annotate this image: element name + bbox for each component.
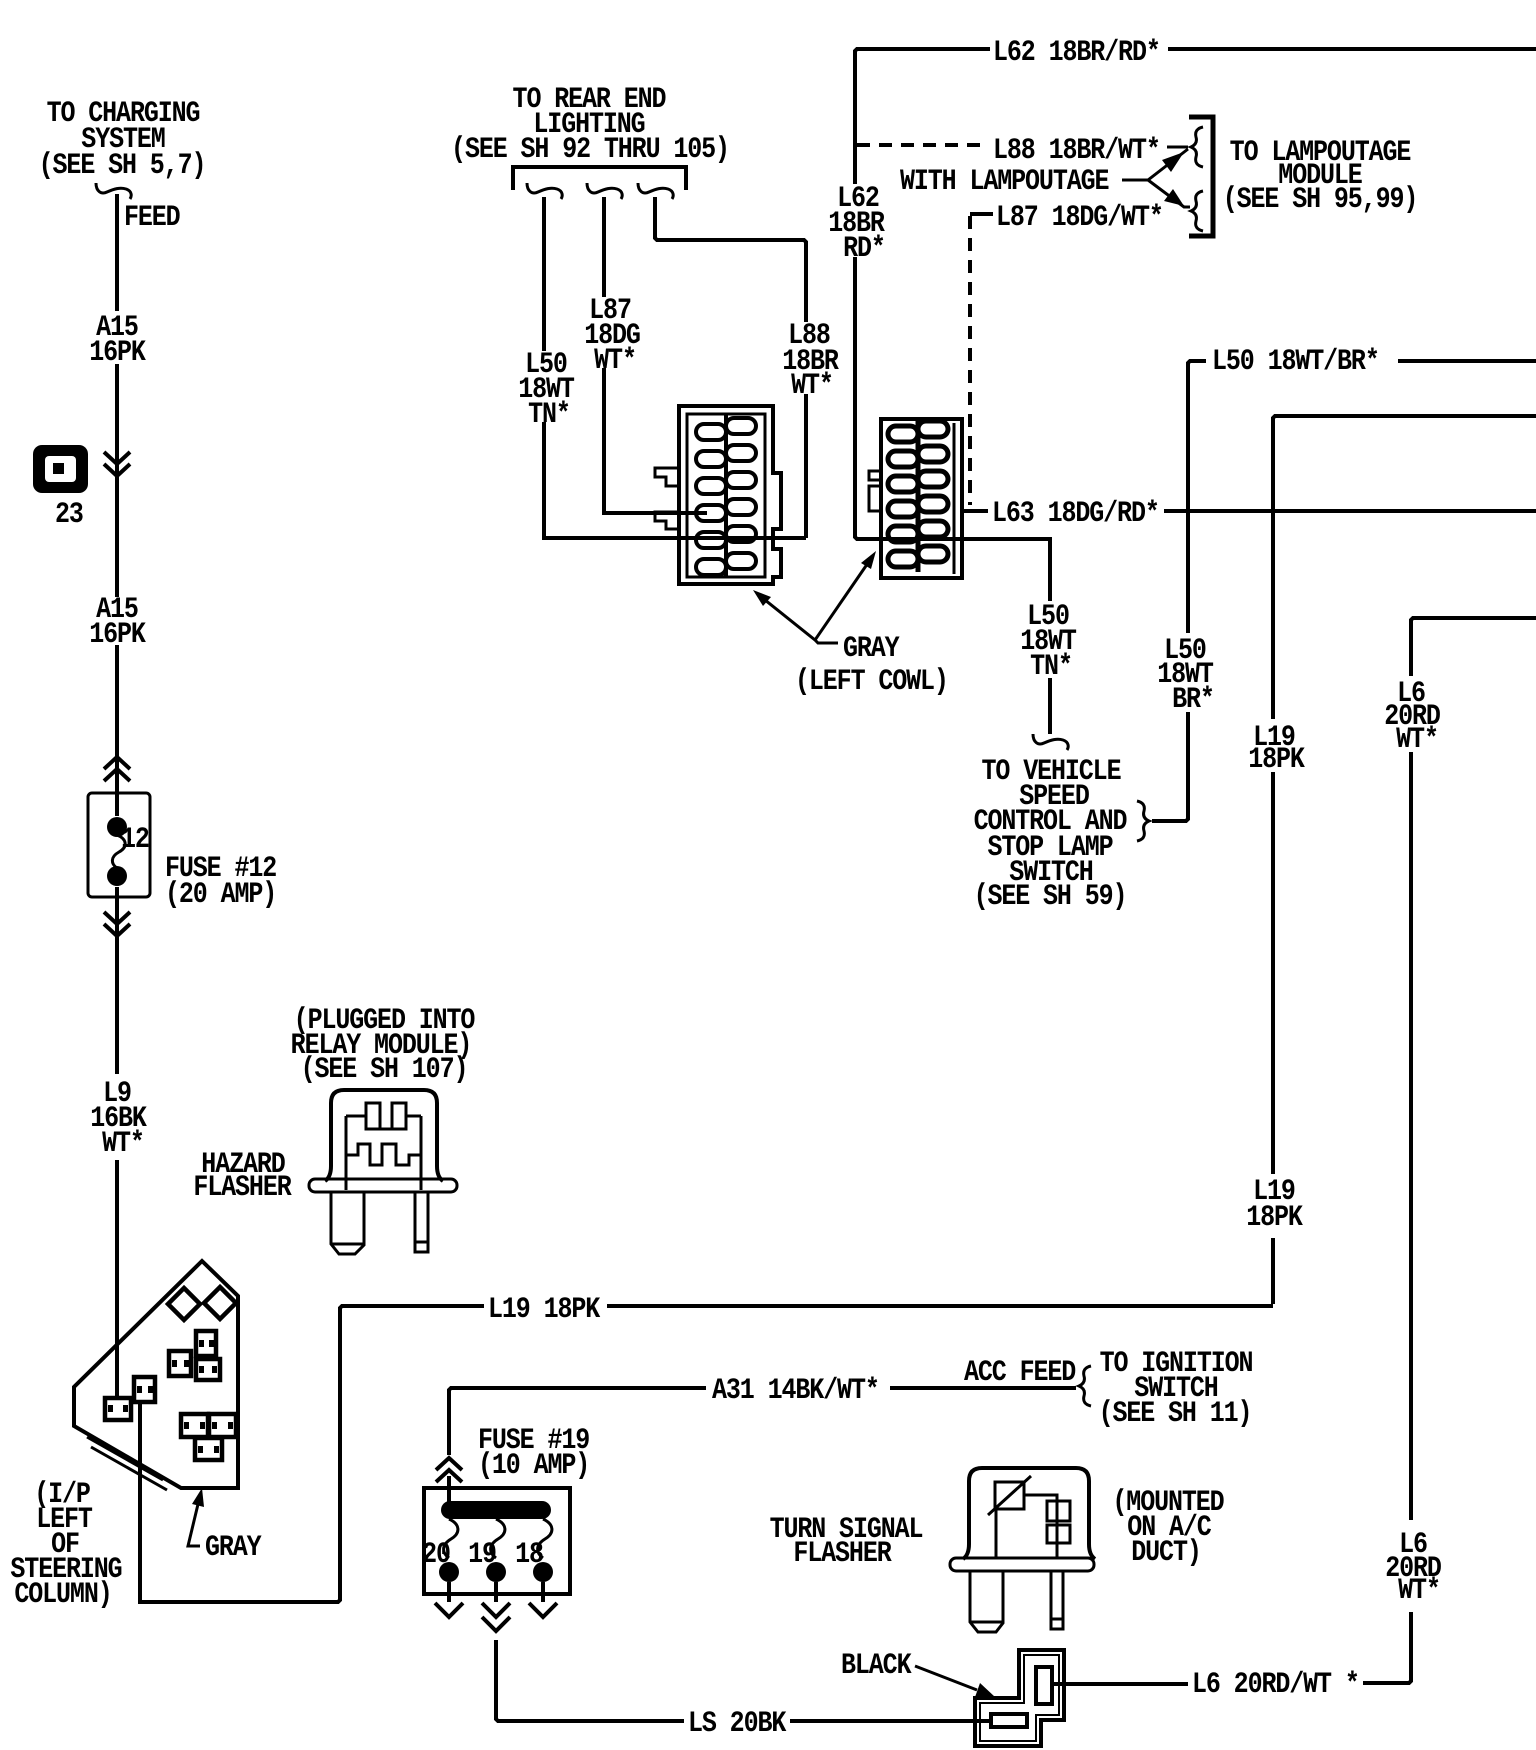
label FUSE #12 (20 AMP) xyxy=(165,852,276,911)
svg-text:COLUMN): COLUMN) xyxy=(14,1578,111,1611)
svg-text:WT*: WT* xyxy=(1396,723,1438,756)
label TO CHARGING SYSTEM (SEE SH 5,7) xyxy=(39,97,206,183)
svg-text:(LEFT COWL): (LEFT COWL) xyxy=(795,665,948,698)
inline connector chevrons (down) below fuse 12 xyxy=(104,912,130,936)
connector C2 gray left cowl (right block) outline xyxy=(869,419,962,578)
label wire L62 18BR RD* (vertical) xyxy=(828,182,885,265)
wire L6 20RD/WT* into black connector xyxy=(1052,1682,1188,1686)
wire L50 18WT/BR* right side xyxy=(1152,361,1536,821)
fuse F12 (FUSE #12 20 AMP) xyxy=(88,793,150,897)
svg-text:L19 18PK: L19 18PK xyxy=(488,1293,601,1326)
svg-text:FLASHER: FLASHER xyxy=(193,1171,292,1204)
wire L62 18BR/RD* top horizontal and down the page xyxy=(855,49,1536,734)
svg-text:(20 AMP): (20 AMP) xyxy=(165,878,276,911)
svg-text:GRAY: GRAY xyxy=(205,1531,262,1564)
label wire L6 20RD WT* (upper) xyxy=(1384,677,1440,756)
wire stub L88 18BR/WT* to lampoutage brace xyxy=(1167,146,1188,149)
steering connector terminal squares xyxy=(105,1331,236,1460)
wire L19 18PK right vertical xyxy=(1273,416,1536,1304)
wire L19 18PK horizontal run to steering column connector xyxy=(140,1306,1273,1602)
svg-text:(10 AMP): (10 AMP) xyxy=(478,1449,589,1482)
arrow fork WITH LAMPOUTAGE upper xyxy=(1122,149,1188,180)
label (MOUNTED ON A/C DUCT) xyxy=(1112,1486,1224,1569)
svg-text:RD*: RD* xyxy=(843,232,885,265)
svg-text:ACC FEED: ACC FEED xyxy=(964,1356,1076,1389)
label TURN SIGNAL FLASHER xyxy=(770,1513,923,1570)
label wire A15 16PK (upper) xyxy=(89,311,146,369)
wire L88 18BR WT* from rear lighting down right xyxy=(655,197,806,538)
svg-text:WT*: WT* xyxy=(1398,1574,1440,1607)
svg-text:L6 20RD/WT *: L6 20RD/WT * xyxy=(1192,1668,1359,1701)
svg-text:(SEE SH 59): (SEE SH 59) xyxy=(974,880,1127,913)
connector C1 gray left cowl (left block) outline xyxy=(655,406,781,584)
arrow GRAY (LEFT COWL) to connector C1 xyxy=(753,590,838,643)
svg-text:WT*: WT* xyxy=(102,1127,144,1160)
label TO LAMPOUTAGE MODULE (SEE SH 95,99) xyxy=(1223,136,1418,216)
arrow GRAY to steering column connector xyxy=(188,1488,204,1546)
label (I/P LEFT OF STEERING COLUMN) xyxy=(10,1478,122,1611)
brace terminal upper (to lampoutage module) xyxy=(1191,127,1203,167)
wire L6 20RD WT* right vertical xyxy=(1363,618,1536,1683)
dashed wire L88 18BR/WT* branch xyxy=(857,143,988,147)
in-line connector 23 symbol xyxy=(33,445,88,493)
svg-text:FLASHER: FLASHER xyxy=(793,1537,892,1570)
label wire A15 16PK (lower) xyxy=(89,593,146,651)
svg-text:(SEE SH 5,7): (SEE SH 5,7) xyxy=(39,149,206,182)
label wire L50 18WT BR* xyxy=(1157,634,1214,716)
label TO REAR END LIGHTING (SEE SH 92 THRU 105) xyxy=(451,83,729,166)
svg-text:L88 18BR/WT*: L88 18BR/WT* xyxy=(993,134,1160,167)
label wire L50 18WT TN* (right) xyxy=(1020,600,1076,683)
svg-text:LS 20BK: LS 20BK xyxy=(688,1707,787,1740)
wire L87 18DG WT* from rear lighting into left cowl connector xyxy=(604,197,707,513)
steering connector terminal diamonds xyxy=(168,1287,236,1320)
svg-text:WT*: WT* xyxy=(594,344,636,377)
black connector at turn signal flasher xyxy=(975,1650,1064,1746)
label wire L87 18DG WT* xyxy=(584,294,640,377)
wire LS 20BK from fuse 19 pin 19 to black connector xyxy=(496,1640,992,1721)
inline connector chevrons (up) above fuse 19 xyxy=(436,1458,462,1482)
fuse F19 block (FUSE #19 10 AMP) xyxy=(424,1488,570,1594)
connector C1 terminal meander xyxy=(696,415,756,576)
steering connector terminal corner nubs xyxy=(108,1340,233,1453)
svg-text:(SEE SH 95,99): (SEE SH 95,99) xyxy=(1223,183,1418,216)
svg-text:(SEE SH 92 THRU 105): (SEE SH 92 THRU 105) xyxy=(451,133,729,166)
terminal squiggle rear lighting 2 xyxy=(587,183,622,199)
arrow GRAY (LEFT COWL) to connector C2 xyxy=(815,551,876,640)
terminal squiggle rear lighting 3 xyxy=(638,183,673,199)
dashed wire L87 18DG/WT* branch xyxy=(970,214,993,505)
svg-text:WITH LAMPOUTAGE: WITH LAMPOUTAGE xyxy=(900,165,1109,198)
svg-text:L50 18WT/BR*: L50 18WT/BR* xyxy=(1212,345,1379,378)
svg-text:BR*: BR* xyxy=(1172,683,1214,716)
label wire L19 18PK (upper) xyxy=(1248,721,1305,776)
label HAZARD FLASHER xyxy=(193,1148,292,1204)
svg-text:L87 18DG/WT*: L87 18DG/WT* xyxy=(996,201,1163,234)
bracket to lampoutage module xyxy=(1189,117,1213,236)
svg-text:L63 18DG/RD*: L63 18DG/RD* xyxy=(992,497,1159,530)
label fuse pins 20 19 18 xyxy=(422,1538,543,1571)
svg-text:18PK: 18PK xyxy=(1246,1201,1303,1234)
svg-text:DUCT): DUCT) xyxy=(1131,1536,1200,1569)
svg-text:(SEE SH 11): (SEE SH 11) xyxy=(1099,1397,1252,1430)
wire A31 14BK/WT* acc feed xyxy=(449,1388,1076,1488)
svg-text:BLACK: BLACK xyxy=(841,1649,912,1682)
brace terminal to stop lamp switch text xyxy=(1137,801,1149,841)
terminal squiggle rear lighting 1 xyxy=(527,183,562,199)
label GRAY (LEFT COWL) xyxy=(795,632,948,698)
wire A15 16PK feed down left column xyxy=(115,194,119,1398)
wire L63 18DG/RD* stub and continuation xyxy=(962,509,1536,513)
label TO VEHICLE SPEED CONTROL AND STOP LAMP SWITCH (SEE SH 59) xyxy=(974,755,1128,913)
fuse 19 pin 20 exit arrow xyxy=(435,1582,463,1617)
label wire L88 18BR WT* xyxy=(782,319,839,402)
svg-text:18PK: 18PK xyxy=(1248,743,1305,776)
inline connector chevrons (down) at connector 23 xyxy=(104,452,130,476)
terminal squiggle to vehicle speed control xyxy=(1033,734,1068,750)
brace terminal acc feed to ignition switch xyxy=(1079,1366,1091,1406)
label TO IGNITION SWITCH (SEE SH 11) xyxy=(1099,1347,1253,1430)
svg-text:GRAY: GRAY xyxy=(843,632,900,665)
fuse 19 pin 18 exit arrow xyxy=(529,1582,557,1617)
svg-text:WT*: WT* xyxy=(791,369,833,402)
label wire L9 16BK WT* xyxy=(90,1077,147,1160)
svg-text:(SEE SH 107): (SEE SH 107) xyxy=(301,1053,468,1086)
svg-text:L62 18BR/RD*: L62 18BR/RD* xyxy=(993,36,1160,69)
label wire L6 20RD WT* (lower) xyxy=(1385,1528,1441,1608)
steering column connector (I/P left of steering column) xyxy=(74,1261,238,1490)
label FUSE #19 (10 AMP) xyxy=(478,1424,589,1482)
arrow fork WITH LAMPOUTAGE lower xyxy=(1148,180,1190,207)
svg-text:FEED: FEED xyxy=(124,201,180,234)
svg-text:23: 23 xyxy=(55,498,84,531)
brace terminal lower (to lampoutage module) xyxy=(1191,191,1203,231)
wire L50 18WT TN* from rear lighting down into left cowl connector xyxy=(544,197,806,538)
label (PLUGGED INTO RELAY MODULE) (SEE SH 107) xyxy=(291,1004,475,1086)
terminal squiggle FEED (to charging system) xyxy=(96,183,131,199)
svg-text:A31 14BK/WT*: A31 14BK/WT* xyxy=(712,1374,879,1407)
arrow BLACK to black connector xyxy=(915,1666,995,1700)
turn signal flasher symbol xyxy=(950,1468,1095,1632)
svg-text:TN*: TN* xyxy=(528,398,570,431)
hazard flasher symbol xyxy=(309,1090,457,1254)
label wire L19 18PK (lower) xyxy=(1246,1175,1303,1234)
bracket to rear end lighting xyxy=(513,167,686,190)
fuse 19 pin 19 exit double chevron xyxy=(482,1582,510,1631)
label wire L50 18WT TN* (left) xyxy=(518,348,574,431)
inline connector chevrons (up) above fuse 12 xyxy=(104,757,130,781)
connector C2 terminal meander xyxy=(888,421,948,572)
